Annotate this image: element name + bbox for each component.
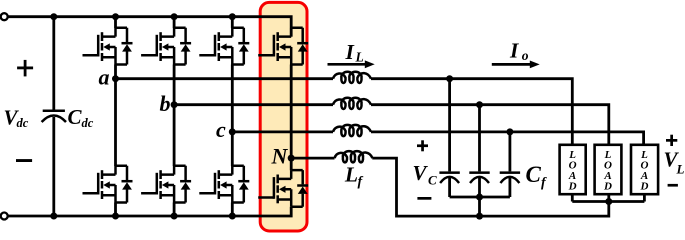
svg-text:N: N [271,144,289,169]
svg-text:C: C [68,105,83,129]
svg-text:f: f [541,176,547,191]
svg-text:D: D [568,181,577,193]
svg-text:L: L [344,163,358,187]
svg-text:I: I [509,39,519,63]
svg-text:f: f [358,175,364,190]
svg-text:D: D [640,181,649,193]
svg-text:C: C [526,162,542,187]
svg-text:o: o [522,48,529,63]
svg-text:dc: dc [17,116,29,130]
svg-text:dc: dc [82,116,94,130]
svg-text:I: I [345,40,355,64]
svg-text:D: D [603,181,612,193]
svg-text:b: b [160,91,171,116]
svg-text:V: V [413,161,429,185]
svg-text:C: C [428,173,437,188]
svg-text:L: L [676,162,685,177]
svg-text:a: a [99,65,110,90]
svg-text:c: c [216,117,226,142]
svg-text:L: L [355,50,364,65]
